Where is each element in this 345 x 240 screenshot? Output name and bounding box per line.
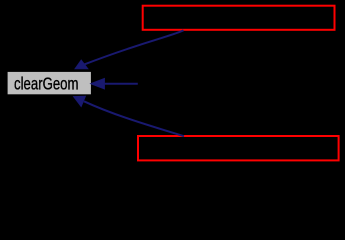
node clearGeom bbox=[8, 72, 91, 94]
svg-text:clearGeom: clearGeom bbox=[14, 73, 79, 93]
caller box bottom bbox=[138, 136, 339, 160]
caller box top bbox=[143, 6, 335, 30]
edge from top caller to clearGeom bbox=[75, 30, 184, 69]
edge from bottom caller to clearGeom bbox=[73, 96, 184, 136]
edge from middle (clipped) to clearGeom bbox=[90, 78, 138, 89]
